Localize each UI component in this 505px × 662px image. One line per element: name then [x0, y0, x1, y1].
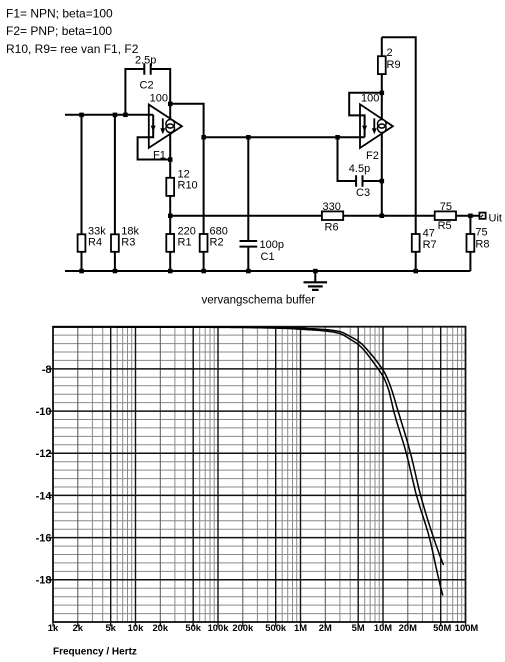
svg-text:50k: 50k [185, 622, 201, 633]
resistor R8 leads [469, 216, 471, 271]
ground stub [314, 271, 316, 282]
svg-text:10k: 10k [128, 622, 144, 633]
junction middle rail at R2 [201, 135, 206, 140]
chart major horizontal gridlines (-8..-18) [49, 369, 466, 580]
svg-text:R5: R5 [438, 220, 452, 232]
chart labeled vertical gridlines (2 per decade, medium) [78, 327, 408, 622]
svg-text:C2: C2 [140, 79, 154, 91]
transistor F2 triangle [360, 104, 393, 148]
transistor F1 control arrow [151, 126, 156, 132]
svg-text:10M: 10M [374, 622, 392, 633]
svg-text:18k: 18k [121, 225, 139, 237]
transistor F2 source arrow [372, 118, 377, 134]
wire top rail to R7 [382, 37, 416, 271]
svg-text:-10: -10 [36, 406, 52, 418]
capacitor C3 plates [356, 175, 362, 187]
resistor R10 body [166, 178, 174, 196]
svg-text:2k: 2k [73, 622, 84, 633]
transistor F1 source circles [166, 120, 175, 133]
wire F1 output vertical [169, 104, 171, 160]
resistor R1 leads [169, 216, 171, 271]
junction middle rail at C1 [246, 135, 251, 140]
svg-text:-8: -8 [42, 364, 52, 376]
svg-text:-14: -14 [36, 490, 53, 502]
junction middle rail at C3 [335, 135, 340, 140]
junction C1 bottom [246, 269, 251, 274]
note text: transistor model description [6, 7, 139, 56]
svg-text:75: 75 [475, 227, 487, 239]
svg-text:50M: 50M [433, 622, 451, 633]
junction ground node [313, 269, 318, 274]
svg-text:100k: 100k [208, 622, 230, 633]
svg-text:4.5p: 4.5p [349, 163, 370, 175]
wire middle node rail [204, 136, 365, 138]
svg-text:R9: R9 [387, 59, 401, 71]
svg-text:2: 2 [387, 47, 393, 59]
svg-text:2.5p: 2.5p [135, 55, 156, 67]
svg-text:F1= NPN; beta=100: F1= NPN; beta=100 [6, 7, 113, 21]
resistor R4 body [78, 234, 86, 252]
junction R10 bottom [168, 214, 173, 219]
svg-text:1k: 1k [48, 622, 59, 633]
svg-text:R6: R6 [325, 222, 339, 234]
svg-text:Uit: Uit [489, 213, 502, 225]
output terminal inner mark [481, 215, 484, 217]
svg-text:-18: -18 [36, 575, 52, 587]
svg-text:R8: R8 [475, 239, 489, 251]
svg-text:100p: 100p [260, 239, 284, 251]
junction R7 bottom [414, 269, 419, 274]
ground symbol bars [304, 282, 328, 290]
resistor R5 body [435, 211, 456, 220]
svg-text:5M: 5M [352, 622, 365, 633]
transistor F1 source arrow [160, 118, 165, 134]
response curve 2 (lower) [53, 327, 443, 595]
resistor R9 body [378, 56, 386, 74]
svg-text:R3: R3 [121, 237, 135, 249]
capacitor C1 plates [240, 241, 258, 247]
capacitor C1 wires [247, 137, 249, 271]
svg-text:5k: 5k [105, 622, 116, 633]
resistor R4 leads [81, 115, 83, 271]
svg-text:100: 100 [150, 92, 168, 104]
svg-text:20k: 20k [152, 622, 168, 633]
resistor R10 leads [169, 160, 171, 216]
svg-text:vervangschema buffer: vervangschema buffer [202, 294, 316, 306]
junction C3 right [380, 179, 385, 184]
svg-text:F2= PNP; beta=100: F2= PNP; beta=100 [6, 24, 112, 38]
capacitor C2 plates [144, 63, 150, 75]
resistor R2 leads [203, 252, 205, 271]
chart axis frame [53, 327, 466, 622]
resistor R1 body [166, 234, 174, 252]
svg-text:330: 330 [323, 201, 341, 213]
junction C2 left leg [123, 113, 128, 118]
svg-text:12: 12 [178, 168, 190, 180]
resistor R2 body [200, 234, 208, 252]
resistor R3 leads [114, 115, 116, 271]
wire F1 top node to R2 column [170, 104, 203, 234]
chart minor horizontal gridlines [53, 335, 466, 613]
wire output rail with R6 R5 [170, 215, 479, 217]
svg-text:C3: C3 [356, 187, 370, 199]
wire ground rail (bottom) [65, 270, 470, 272]
svg-text:-16: -16 [36, 533, 52, 545]
svg-text:R2: R2 [210, 237, 224, 249]
transistor F2 control arrow [362, 126, 367, 132]
response curve 1 (upper) [53, 327, 444, 565]
svg-text:R1: R1 [178, 237, 192, 249]
junction R3 top [113, 113, 118, 118]
svg-text:Frequency / Hertz: Frequency / Hertz [53, 647, 137, 658]
svg-text:680: 680 [210, 225, 228, 237]
svg-text:100M: 100M [455, 622, 479, 633]
chart major vertical gridlines (1,5 per decade, dark) [111, 327, 441, 622]
y-axis labels [36, 364, 53, 587]
svg-text:R10: R10 [178, 180, 198, 192]
svg-text:C1: C1 [261, 251, 275, 263]
capacitor C3 wires [338, 137, 382, 181]
svg-text:47: 47 [423, 228, 435, 240]
svg-text:R4: R4 [88, 237, 102, 249]
junction R4 top [79, 113, 84, 118]
wire F1 control branch [138, 115, 171, 160]
junction Uit node [468, 214, 473, 219]
svg-text:20M: 20M [399, 622, 417, 633]
svg-text:F1: F1 [153, 149, 166, 161]
svg-text:2M: 2M [319, 622, 332, 633]
junction R2 bottom [201, 269, 206, 274]
svg-text:200k: 200k [232, 622, 254, 633]
svg-text:F2: F2 [366, 150, 379, 162]
svg-text:500k: 500k [265, 622, 287, 633]
svg-text:R10, R9= ree van F1, F2: R10, R9= ree van F1, F2 [6, 42, 139, 56]
x-axis labels [48, 622, 479, 633]
chart x-axis tick marks [53, 622, 466, 627]
junction R1 bottom [168, 269, 173, 274]
resistor R6 body [322, 211, 343, 220]
svg-text:-12: -12 [36, 448, 52, 460]
junction node 100 of F2 [380, 91, 385, 96]
transistor F2 source circles [378, 120, 387, 133]
capacitor C2 wires [125, 69, 170, 115]
svg-text:33k: 33k [88, 225, 106, 237]
svg-text:75: 75 [440, 201, 452, 213]
svg-text:R7: R7 [423, 239, 437, 251]
svg-text:220: 220 [178, 225, 196, 237]
wire input rail (top left) [65, 114, 153, 116]
svg-text:1M: 1M [294, 622, 307, 633]
svg-text:100: 100 [361, 92, 379, 104]
junction F1 emitter node [168, 157, 173, 162]
resistor R3 body [111, 234, 119, 252]
junction F2 output on rail [380, 214, 385, 219]
resistor R7 body [412, 234, 420, 252]
junction node 100 of F1 [168, 102, 173, 107]
chart minor vertical gridlines [92, 327, 461, 622]
wire F2 control branch [349, 93, 382, 137]
junction R4 bottom [79, 269, 84, 274]
transistor F1 triangle [149, 105, 182, 148]
junction R3 bottom [113, 269, 118, 274]
output terminal Uit square [479, 213, 485, 219]
resistor R8 body [467, 234, 475, 252]
wire F2 output vertical with R9 [381, 37, 383, 216]
